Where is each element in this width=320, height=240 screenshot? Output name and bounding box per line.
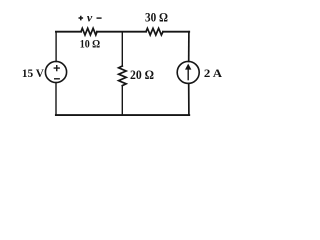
svg-text:30 Ω: 30 Ω	[145, 10, 168, 24]
wire left lower (source to bottom node)	[55, 83, 57, 116]
voltage source minus sign	[55, 78, 60, 80]
voltage source V1 circle	[45, 61, 66, 82]
current source I1 circle	[177, 61, 199, 83]
wire middle branch lower	[121, 86, 123, 116]
wire right upper (top node to current source)	[188, 32, 190, 62]
current source arrow head	[185, 64, 191, 70]
wire left upper (source to top node)	[55, 32, 57, 62]
svg-text:v: v	[87, 11, 93, 25]
wire middle branch upper	[121, 32, 123, 66]
voltage source plus sign	[54, 66, 59, 71]
svg-text:15 V: 15 V	[22, 66, 44, 80]
label: polarity minus sign of v across R1	[97, 17, 102, 19]
wire bottom segment	[56, 114, 189, 116]
wire top-right segment	[163, 31, 189, 33]
resistor R3 20ohm zigzag vertical	[119, 66, 127, 86]
resistor R1 10ohm zigzag	[81, 28, 97, 35]
svg-text:10 Ω: 10 Ω	[80, 36, 101, 50]
wire right lower (current source to bottom)	[188, 83, 190, 115]
current source arrow shaft	[187, 67, 189, 80]
wire top-middle segment	[97, 31, 146, 33]
label: polarity plus sign of v across R1	[79, 16, 84, 21]
svg-text:20 Ω: 20 Ω	[130, 68, 154, 82]
resistor R2 30ohm zigzag	[146, 28, 163, 35]
svg-text:2 A: 2 A	[204, 66, 223, 80]
wire top-left segment	[56, 31, 81, 33]
